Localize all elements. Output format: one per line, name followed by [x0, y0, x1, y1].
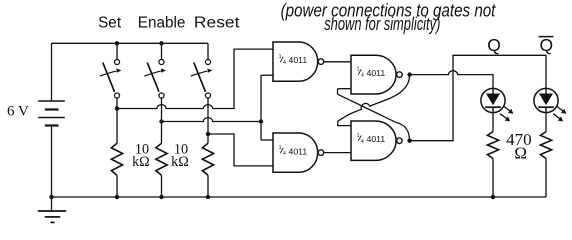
svg-text:1: 1	[357, 133, 360, 139]
label U4	[357, 133, 386, 145]
op-amp U4 NAND 1/4 4011	[351, 121, 402, 160]
label Set	[98, 15, 122, 32]
switch Enable	[144, 43, 166, 98]
svg-text:Set: Set	[98, 15, 122, 32]
node set top junction	[115, 41, 119, 45]
wire ground rail	[52, 196, 547, 198]
svg-text:4: 4	[283, 151, 286, 157]
label U1	[279, 54, 308, 66]
battery 6 V	[38, 101, 65, 126]
svg-text:Q: Q	[539, 35, 553, 55]
svg-text:6 V: 6 V	[7, 104, 29, 120]
wire Enable to U1/U2 inputs	[162, 75, 274, 140]
annotation: power note line 1	[281, 1, 497, 21]
node R1 ground junction	[115, 195, 119, 199]
wire top supply rail	[52, 42, 209, 44]
label Q-bar	[539, 35, 554, 55]
resistor R1 10 kOhm	[111, 143, 122, 197]
switch Set	[100, 43, 122, 98]
node R4 ground junction	[491, 195, 495, 199]
ground	[38, 197, 66, 222]
svg-text:4: 4	[283, 60, 286, 66]
wire Reset to U2 input	[208, 134, 273, 166]
node Set line junction	[115, 106, 119, 110]
svg-text:Ω: Ω	[514, 144, 527, 163]
svg-text:shown for simplicity): shown for simplicity)	[324, 14, 440, 34]
wire Reset column drop upper	[207, 98, 209, 143]
label R1 value	[132, 142, 150, 170]
wire Q output	[410, 71, 493, 89]
svg-text:kΩ: kΩ	[132, 154, 150, 170]
switch Reset	[191, 43, 213, 98]
label U2	[279, 145, 308, 157]
svg-text:4011: 4011	[289, 146, 308, 156]
node U4 output junction	[407, 139, 411, 143]
label R2 value	[171, 142, 189, 170]
annotation: power note line 2	[324, 14, 440, 34]
label Reset	[194, 15, 240, 32]
op-amp U1 NAND 1/4 4011	[273, 42, 324, 81]
node battery ground junction	[49, 195, 53, 199]
op-amp U3 NAND 1/4 4011	[351, 55, 402, 94]
wire LED1 cathode lead	[492, 112, 494, 131]
wire battery bottom lead	[51, 126, 53, 198]
node Enable branch junction	[259, 119, 263, 123]
node Reset line junction	[206, 132, 210, 136]
wire U3 feedback to U4 input (with hop over crossing)	[338, 75, 410, 125]
resistor R5 470 Ohm	[540, 132, 551, 197]
svg-text:Reset: Reset	[194, 15, 240, 32]
wire U2 out to U4 in	[324, 152, 351, 154]
wire Enable column drop upper	[161, 98, 163, 143]
label R4 value	[506, 130, 532, 163]
svg-text:4: 4	[361, 139, 364, 145]
wire U4 feedback to U3 input	[338, 89, 410, 141]
LED D2 (Q-bar indicator)	[534, 88, 566, 121]
wire Set to U1 input	[117, 49, 273, 108]
svg-text:4011: 4011	[367, 68, 386, 78]
svg-text:kΩ: kΩ	[171, 154, 189, 170]
wire Q-bar output	[410, 55, 546, 140]
wire LED2 cathode lead	[545, 112, 547, 131]
svg-text:4: 4	[361, 73, 364, 79]
node R2 ground junction	[159, 195, 163, 199]
svg-text:4011: 4011	[289, 55, 308, 65]
resistor R4 470 Ohm	[487, 132, 498, 197]
svg-text:1: 1	[357, 67, 360, 73]
LED D1 (Q indicator)	[481, 88, 513, 121]
label Q	[487, 35, 501, 55]
label U3	[357, 67, 386, 79]
wire battery top lead	[51, 43, 53, 101]
op-amp U2 NAND 1/4 4011	[273, 133, 324, 172]
svg-text:Enable: Enable	[138, 15, 186, 32]
svg-text:4011: 4011	[367, 134, 386, 144]
resistor R3 10 kOhm	[202, 143, 213, 197]
label 6 V	[7, 104, 29, 120]
node enable top junction	[159, 41, 163, 45]
node U3 output junction	[407, 72, 411, 76]
wire Set column drop	[116, 98, 118, 143]
node Enable line junction	[159, 119, 163, 123]
resistor R2 10 kOhm	[156, 143, 167, 197]
wire U1 out to U3 in	[324, 61, 351, 63]
svg-text:1: 1	[279, 54, 282, 60]
svg-text:Q: Q	[487, 35, 501, 55]
svg-text:1: 1	[279, 145, 282, 151]
label Enable	[138, 15, 186, 32]
node R3 ground junction	[206, 195, 210, 199]
